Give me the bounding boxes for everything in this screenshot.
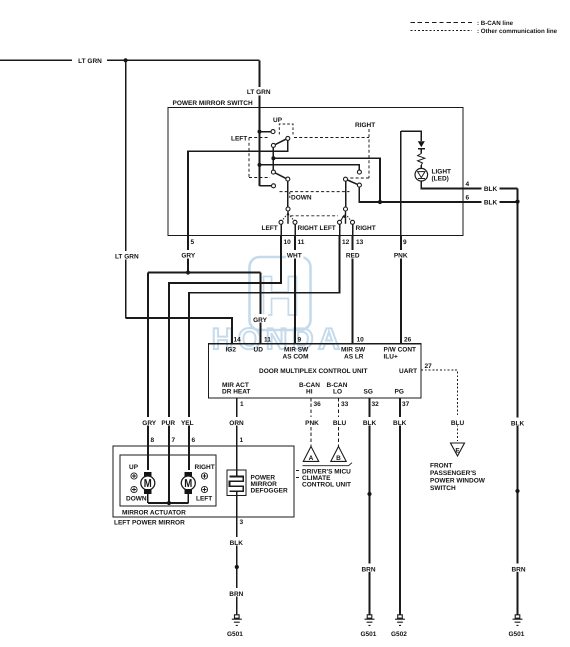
svg-text:G501: G501 [227,631,243,638]
svg-text:DOOR MULTIPLEX CONTROL UNIT: DOOR MULTIPLEX CONTROL UNIT [259,368,367,375]
label BLK pg [392,417,408,426]
svg-text:LEFT POWER MIRROR: LEFT POWER MIRROR [114,520,185,527]
symbol plus right [201,473,207,479]
svg-text:GRY: GRY [142,420,157,427]
contact pin10 LEFT [279,220,283,224]
dashed bracket DOWN [289,192,291,198]
contact pin12 LEFT [338,220,342,224]
wire GRY down to motor UD [147,273,149,471]
svg-text:BLU: BLU [333,420,347,427]
svg-text:PASSENGER'S: PASSENGER'S [430,470,477,477]
motor UD terminal bottom [144,489,152,494]
svg-text:B: B [336,455,341,462]
svg-text:DR HEAT: DR HEAT [222,388,250,395]
svg-text:AS LR: AS LR [344,353,364,360]
svg-text:BRN: BRN [361,566,375,573]
svg-text:36: 36 [314,401,322,408]
ground G501 mid [361,615,377,638]
power mirror switch box [168,100,463,235]
svg-text:11: 11 [298,239,305,246]
wire pin12 stub [339,224,341,235]
svg-text:HI: HI [306,388,313,395]
lever LR [347,180,357,184]
svg-text:RIGHT: RIGHT [195,464,215,471]
symbol plus left [201,486,207,492]
node feed right switch [258,163,262,167]
svg-text:MIRROR ACTUATOR: MIRROR ACTUATOR [122,510,186,517]
svg-text:PG: PG [395,388,404,395]
diode bar [418,148,425,150]
watermark Honda logo [212,257,345,356]
svg-text:YEL: YEL [181,420,194,427]
svg-text:12: 12 [342,239,350,246]
svg-text:: Other communication line: : Other communication line [477,28,558,35]
wire B-CAN LO dashed [338,398,340,446]
wire LTGRN feed to right switch contact A [260,165,360,170]
dashed linkage RIGHT vertical [348,129,369,178]
wire contact C to pin6 net [359,187,380,202]
label PNK hi [304,417,321,426]
label BRN right [510,564,527,573]
svg-text:UD: UD [254,347,264,354]
label BLK pin4 [482,184,500,193]
svg-text:LT GRN: LT GRN [78,58,102,65]
node pin6 net [378,200,382,204]
diode arrow [418,141,425,147]
label YEL act [180,417,196,426]
wire zigzag to LED [420,165,422,169]
wire DOWN wiper to selector [287,181,289,207]
svg-text:E: E [455,448,460,455]
wire WHT pin11 down [294,236,296,344]
svg-text:9: 9 [403,239,407,246]
svg-text:A: A [309,455,314,462]
wire PG BLK [399,398,401,615]
svg-text:UART: UART [399,368,417,375]
contact UD wiper lower [271,170,275,174]
node junction on LT GRN rail [124,58,128,62]
svg-text:1: 1 [240,437,244,444]
svg-text:32: 32 [372,401,380,408]
wire diode to zigzag [420,149,422,154]
svg-text:SWITCH: SWITCH [430,485,456,492]
symbol plus up [131,473,137,479]
label LT GRN switch feed [245,87,274,96]
svg-text:POWER MIRROR SWITCH: POWER MIRROR SWITCH [173,100,253,107]
LED bar [418,177,425,179]
wire PNK pin9 down [400,236,402,344]
legend other communication line [411,28,558,35]
defogger element [230,470,244,496]
svg-text:M: M [184,478,192,490]
node SG splice [367,492,371,496]
svg-text:BLK: BLK [484,186,498,193]
wire LT GRN top rail [0,56,260,65]
contact pin13 RIGHT [351,220,355,224]
connector A triangle [303,446,318,462]
svg-text:4: 4 [466,181,470,188]
label GRY mid [252,314,269,323]
svg-text:G501: G501 [361,631,377,638]
node GRY split [186,270,190,274]
label BLK defogger [228,537,244,546]
resistor zigzag [418,154,425,165]
wire motor LR bottom [187,494,189,503]
wire ORN pin1 [236,398,238,470]
motor LR [181,476,195,490]
svg-text:3: 3 [240,519,244,526]
svg-text:UP: UP [129,464,139,471]
svg-text:8: 8 [151,437,155,444]
wire pin10 stub [280,224,282,235]
wire LED feed [400,131,402,235]
svg-text:BRN: BRN [511,566,525,573]
label ORN [228,417,246,426]
svg-text:6: 6 [466,194,470,201]
svg-text:6: 6 [192,437,196,444]
svg-text:LEFT: LEFT [196,495,212,502]
wire defogger to ground [236,496,238,616]
svg-text:LEFT: LEFT [231,135,247,142]
underline connectors [303,463,353,466]
svg-text:14: 14 [234,336,242,343]
svg-text:10: 10 [284,239,292,246]
label PNK [393,250,410,259]
lever UD selector neutral [287,211,289,224]
svg-text:RIGHT: RIGHT [355,122,375,129]
lever UD lower [275,173,286,179]
wire motor UD bottom [147,494,149,503]
svg-text:BRN: BRN [229,591,243,598]
dashed linkage middle [280,191,350,193]
wire GRY cross line1 [148,272,261,274]
wire GRY to UD pin11 [260,273,262,344]
svg-text:SG: SG [364,388,373,395]
wire pin12 to YEL line3 [189,236,340,471]
contact wiper top [286,136,290,140]
svg-text:POWER WINDOW: POWER WINDOW [430,478,486,485]
node defogger splice [235,565,239,569]
svg-text:PUR: PUR [161,420,175,427]
node feed UP contact [258,130,262,134]
wire pin13 stub [352,224,354,235]
dashed linkage top [294,137,369,139]
wire GRY from pin5 [187,236,189,273]
label BLU lo [332,417,348,426]
wire pin5 feed from wiper top [188,140,288,235]
power mirror defogger box [227,470,288,496]
svg-text:LT GRN: LT GRN [115,254,139,261]
wire pin 6 line [380,201,518,203]
node UD tap [271,156,275,160]
wire LT GRN branch down-left [112,60,142,318]
label BRN defogger [228,588,245,597]
wire UD wiper chain [272,147,274,170]
wire B-CAN HI dashed [310,398,312,446]
node right splice [515,489,519,493]
svg-text:RIGHT: RIGHT [356,225,376,232]
wire right column BLK [517,189,519,616]
svg-text:LEFT: LEFT [262,225,278,232]
svg-text:BLK: BLK [230,540,244,547]
svg-text:7: 7 [172,437,176,444]
dashed bracket UP [279,124,293,135]
motor LR terminal bottom [185,489,193,494]
contact LR selector pivot [344,207,348,211]
svg-text:G501: G501 [509,631,525,638]
svg-text:AS COM: AS COM [283,353,309,360]
svg-text:LO: LO [333,388,342,395]
contact LR fixed A [357,170,361,174]
contact LR wiper B [344,177,348,181]
dashed linkage left box [249,138,270,178]
svg-text:26: 26 [404,336,412,343]
contact DOWN fixed [272,184,276,188]
mirror actuator box [120,455,216,517]
node pin6 right [515,200,519,204]
contact pin11 RIGHT [293,220,297,224]
contact UD wiper upper [271,143,275,147]
svg-text:11: 11 [264,336,271,343]
wire UART dotted [421,370,458,441]
svg-text:UP: UP [273,117,283,124]
LED triangle [418,172,425,178]
connector B triangle [331,446,346,462]
wire LR wiper to selector [345,181,347,207]
svg-text:IG2: IG2 [226,347,237,354]
svg-text:ORN: ORN [229,420,244,427]
dashed linkage lower [291,215,339,217]
label PUR act [160,417,177,426]
svg-text:DOWN: DOWN [126,495,147,502]
svg-text:WHT: WHT [287,253,302,260]
svg-text:1: 1 [240,401,244,408]
label GRY pin5 [180,250,197,259]
label driver's micu climate control unit [296,468,351,488]
ground G502 [391,615,407,638]
svg-text:BLK: BLK [393,420,407,427]
label BRN sg [360,564,377,573]
svg-text:FRONT: FRONT [430,463,452,470]
svg-text:27: 27 [425,363,433,370]
svg-text:ILU+: ILU+ [384,353,398,360]
wire pin 4 line [421,181,517,189]
svg-text:BLU: BLU [451,420,465,427]
svg-text:CONTROL UNIT: CONTROL UNIT [302,482,351,489]
svg-text:: B-CAN line: : B-CAN line [477,20,514,27]
label front passenger power window switch [430,463,486,493]
wire motor common bar [148,502,189,504]
wire UD tap to right (pin 6 net) [273,158,380,202]
label BLK right [510,418,526,427]
label WHT [286,250,304,259]
svg-text:DEFOGGER: DEFOGGER [251,488,289,495]
contact UD selector pivot [286,207,290,211]
label BLU uart [450,417,466,426]
wire SG BLK [369,398,371,615]
wire LED top [401,131,422,141]
label BLK sg [362,417,378,426]
legend B-CAN line [411,20,514,27]
svg-text:10: 10 [357,336,365,343]
ground G501 right [509,615,525,638]
contact LR fixed C [357,183,361,187]
wire LT GRN main vertical into switch [259,60,261,186]
label GRY act [141,417,158,426]
lever UD upper [275,139,286,144]
motor UD terminal top [144,472,152,477]
symbol plus down [131,486,137,492]
svg-text:M: M [144,478,152,490]
connector E triangle [451,443,465,456]
svg-text:G502: G502 [391,631,407,638]
wire pin11 stub [294,224,296,235]
motor UD [141,476,155,490]
wire to UP contact [260,131,271,133]
svg-text:LT GRN: LT GRN [247,89,271,96]
wire main to DOWN contact [260,185,272,187]
svg-text:PNK: PNK [394,253,408,260]
svg-text:GRY: GRY [181,253,196,260]
svg-text:GRY: GRY [253,317,268,324]
left power mirror box [113,446,294,527]
svg-text:BLK: BLK [511,420,525,427]
svg-text:5: 5 [191,239,195,246]
door multiplex control unit box [208,344,421,398]
svg-text:PNK: PNK [305,420,319,427]
contact UP fixed [271,130,275,134]
svg-text:RIGHT LEFT: RIGHT LEFT [298,225,336,232]
LED lamp circle [415,168,428,181]
svg-text:DOWN: DOWN [291,195,312,202]
svg-text:(LED): (LED) [432,175,449,182]
wire pin10 to PUR line2 [169,236,281,504]
svg-text:BLK: BLK [363,420,377,427]
svg-text:13: 13 [356,239,364,246]
motor LR terminal top [185,472,193,477]
node motor common [167,501,171,505]
lever LR selector neutral [345,211,347,224]
svg-text:33: 33 [341,401,349,408]
svg-text:RED: RED [346,253,360,260]
wire LT GRN to IG2 pin 14 [126,318,232,344]
label RED [345,250,361,259]
contact DOWN wiper [286,177,290,181]
label BLK pin6 [482,197,500,206]
wire RED pin13 down [352,236,354,344]
svg-text:37: 37 [402,401,410,408]
ground G501 left [227,615,243,638]
svg-text:BLK: BLK [484,199,498,206]
svg-text:9: 9 [298,336,302,343]
